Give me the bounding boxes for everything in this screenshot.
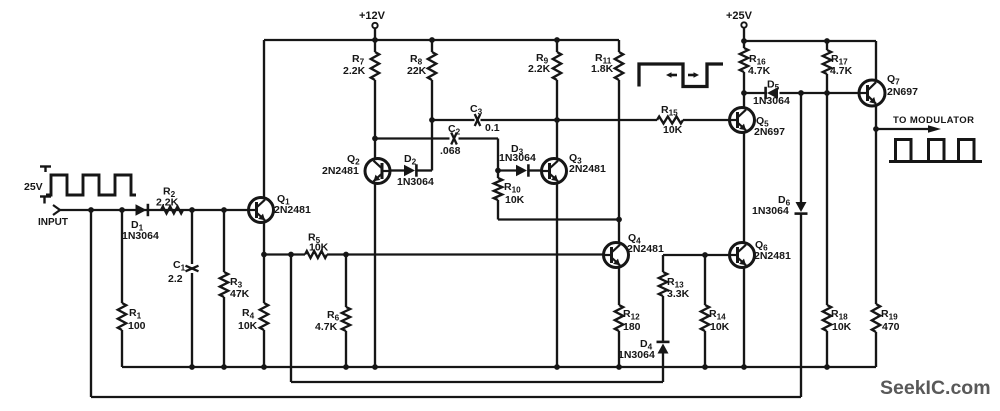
svg-text:2N697: 2N697 bbox=[887, 86, 918, 98]
svg-text:C2: C2 bbox=[448, 123, 461, 137]
svg-text:R19: R19 bbox=[881, 308, 898, 322]
svg-text:2N2481: 2N2481 bbox=[754, 250, 791, 262]
svg-text:C1: C1 bbox=[173, 259, 186, 273]
svg-text:1N3064: 1N3064 bbox=[752, 205, 789, 217]
svg-text:2N2481: 2N2481 bbox=[627, 243, 664, 255]
svg-text:10K: 10K bbox=[309, 242, 329, 254]
svg-text:R18: R18 bbox=[831, 308, 848, 322]
svg-text:R15: R15 bbox=[661, 104, 678, 118]
svg-text:4.7K: 4.7K bbox=[315, 321, 338, 333]
svg-text:SeekIC.com: SeekIC.com bbox=[880, 377, 991, 399]
svg-text:2N2481: 2N2481 bbox=[322, 165, 359, 177]
svg-text:1N3064: 1N3064 bbox=[122, 230, 159, 242]
svg-text:TO MODULATOR: TO MODULATOR bbox=[893, 115, 974, 126]
svg-text:470: 470 bbox=[882, 321, 900, 333]
svg-text:2N2481: 2N2481 bbox=[569, 163, 606, 175]
svg-text:2.2K: 2.2K bbox=[156, 197, 179, 209]
svg-text:4.7K: 4.7K bbox=[748, 65, 771, 77]
svg-text:+12V: +12V bbox=[359, 10, 386, 22]
svg-text:D5: D5 bbox=[767, 79, 780, 93]
svg-text:47K: 47K bbox=[230, 288, 250, 300]
svg-text:C3: C3 bbox=[470, 103, 483, 117]
svg-text:R1: R1 bbox=[129, 307, 142, 321]
svg-text:10K: 10K bbox=[238, 320, 258, 332]
svg-text:25V: 25V bbox=[24, 181, 43, 193]
svg-text:2N697: 2N697 bbox=[754, 126, 785, 138]
svg-text:1N3064: 1N3064 bbox=[753, 95, 790, 107]
svg-text:3.3K: 3.3K bbox=[667, 288, 690, 300]
svg-text:.068: .068 bbox=[440, 145, 461, 157]
svg-text:2.2K: 2.2K bbox=[528, 63, 551, 75]
svg-text:22K: 22K bbox=[407, 65, 427, 77]
svg-text:1N3064: 1N3064 bbox=[397, 176, 434, 188]
svg-text:1N3064: 1N3064 bbox=[499, 152, 536, 164]
svg-text:R4: R4 bbox=[242, 307, 255, 321]
svg-text:Q7: Q7 bbox=[887, 73, 900, 87]
svg-text:R12: R12 bbox=[623, 308, 640, 322]
svg-text:2.2: 2.2 bbox=[168, 273, 183, 285]
svg-text:R14: R14 bbox=[709, 308, 726, 322]
svg-text:1.8K: 1.8K bbox=[591, 63, 614, 75]
svg-text:4.7K: 4.7K bbox=[830, 65, 853, 77]
svg-text:D2: D2 bbox=[404, 153, 417, 167]
svg-text:0.1: 0.1 bbox=[485, 122, 500, 134]
svg-text:+25V: +25V bbox=[726, 10, 753, 22]
svg-text:10K: 10K bbox=[663, 124, 683, 136]
svg-text:10K: 10K bbox=[710, 321, 730, 333]
svg-text:R10: R10 bbox=[504, 181, 521, 195]
svg-text:INPUT: INPUT bbox=[38, 217, 68, 228]
svg-text:180: 180 bbox=[623, 321, 641, 333]
svg-text:10K: 10K bbox=[505, 194, 525, 206]
svg-text:2.2K: 2.2K bbox=[343, 65, 366, 77]
svg-text:100: 100 bbox=[128, 320, 146, 332]
svg-text:2N2481: 2N2481 bbox=[274, 204, 311, 216]
svg-text:1N3064: 1N3064 bbox=[618, 349, 655, 361]
svg-text:10K: 10K bbox=[832, 321, 852, 333]
